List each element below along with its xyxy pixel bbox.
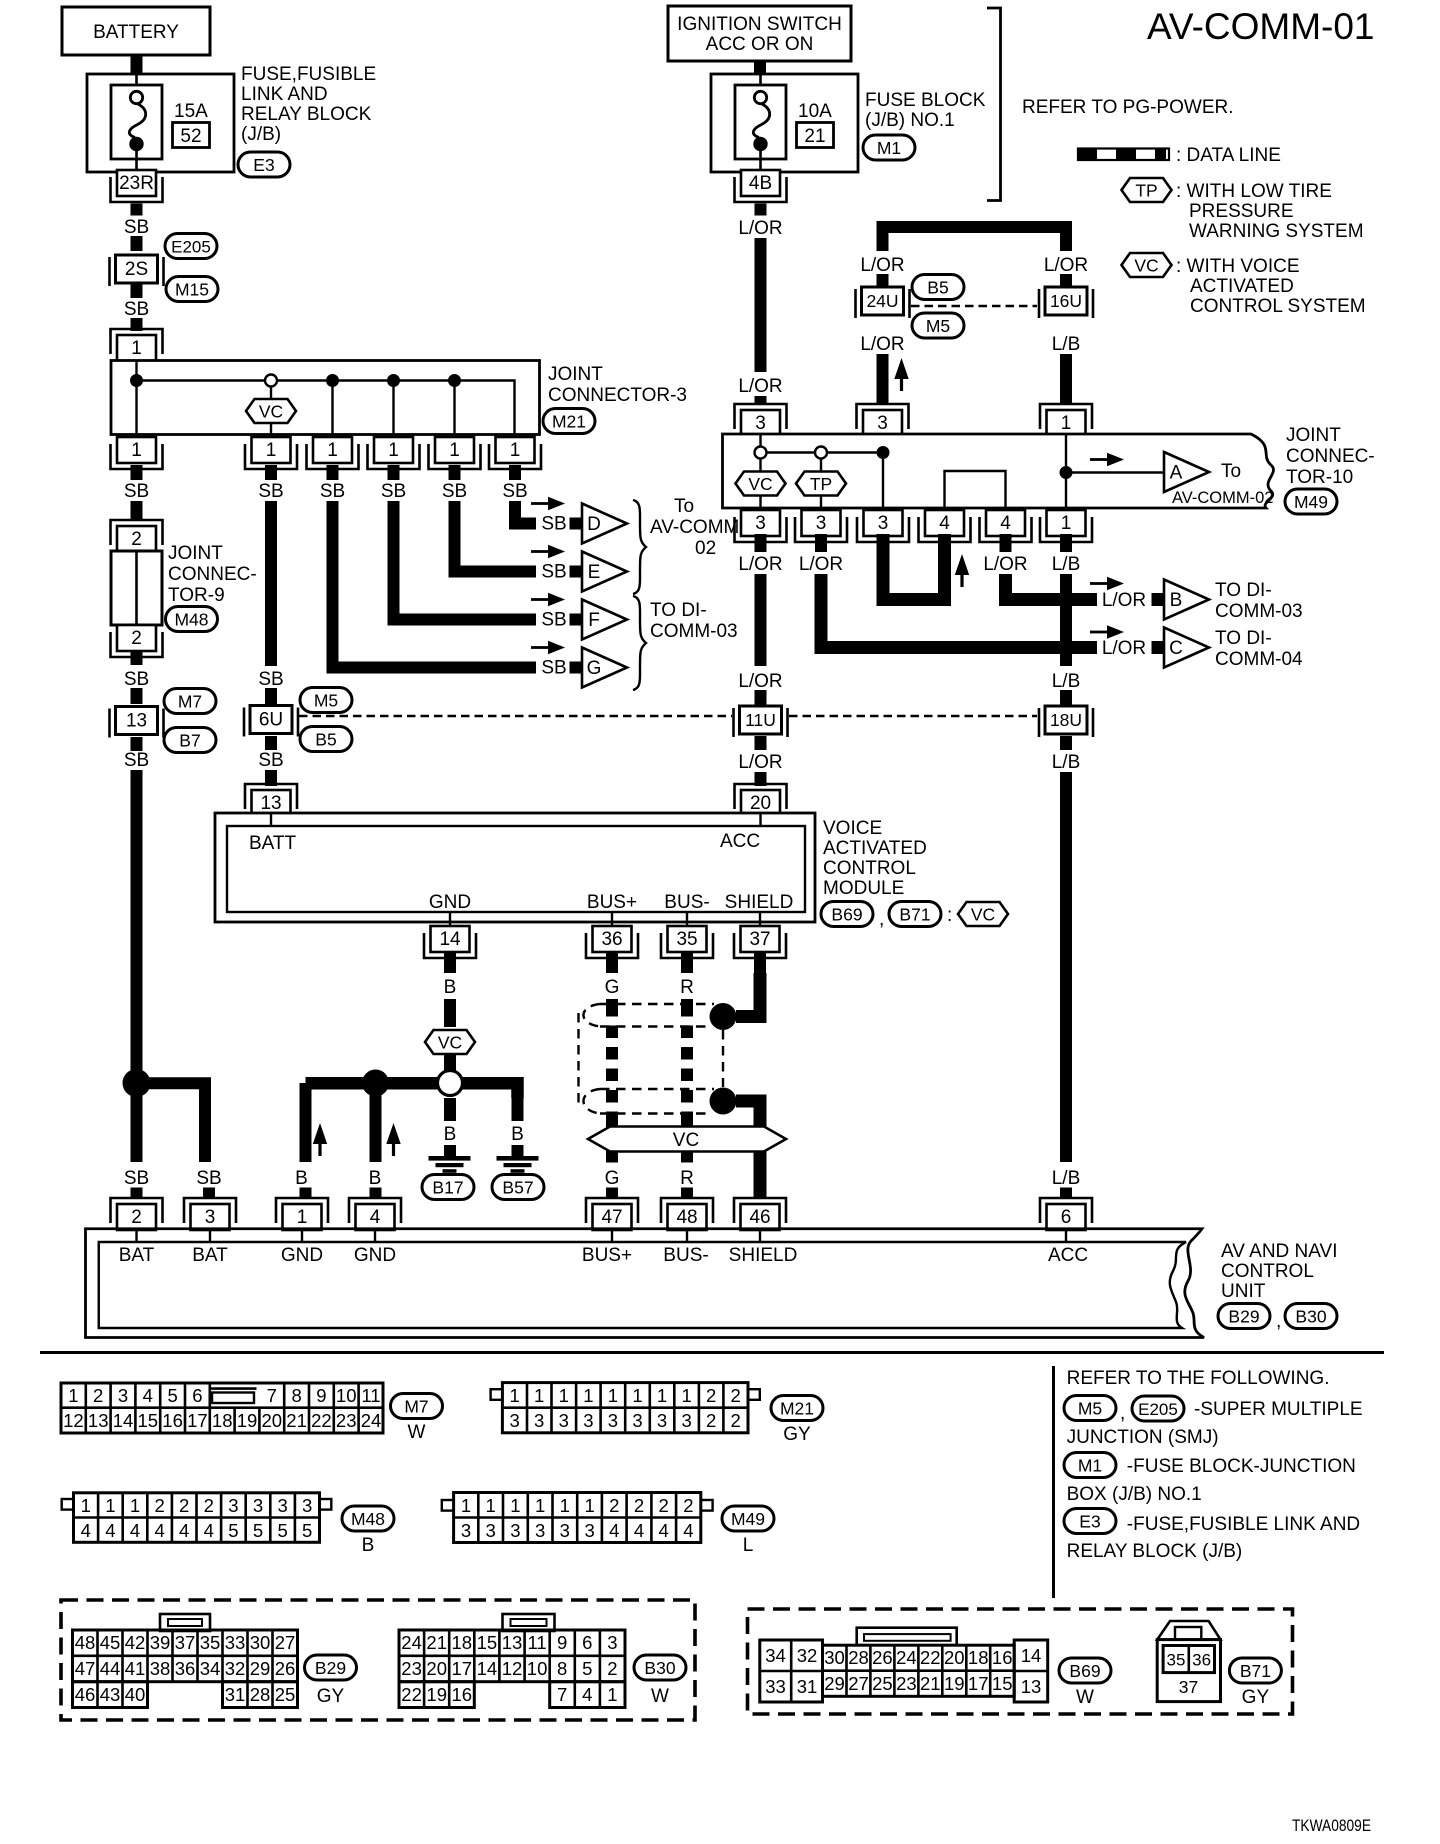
pin 3 top JC-10	[735, 404, 787, 436]
svg-text:M48: M48	[351, 1509, 385, 1529]
svg-text:18: 18	[968, 1647, 989, 1668]
fuse 15A	[111, 85, 162, 159]
svg-text:36: 36	[175, 1658, 196, 1679]
svg-text:: WITH VOICE: : WITH VOICE	[1176, 256, 1300, 277]
wire L/B down to 18U	[1060, 574, 1072, 666]
connector B7 oval	[164, 728, 216, 753]
connector M1	[863, 135, 915, 160]
svg-text:SB: SB	[258, 750, 283, 771]
pin 13 on VACM	[245, 784, 297, 816]
svg-text:RELAY BLOCK: RELAY BLOCK	[241, 104, 372, 125]
pin 1 top of joint connector-3	[111, 329, 163, 361]
svg-text:M49: M49	[1294, 492, 1328, 512]
svg-text:SB: SB	[320, 481, 345, 502]
open junction	[265, 375, 277, 387]
svg-text:2: 2	[93, 1385, 103, 1406]
svg-text:25: 25	[872, 1673, 893, 1694]
svg-text:1: 1	[266, 440, 277, 461]
svg-text:5: 5	[302, 1520, 312, 1541]
connector 24U	[856, 287, 910, 318]
svg-text:1: 1	[632, 1385, 642, 1406]
svg-text:BUS-: BUS-	[664, 892, 709, 913]
svg-text:2: 2	[706, 1410, 716, 1431]
svg-text:1: 1	[388, 440, 399, 461]
svg-text:23: 23	[401, 1658, 422, 1679]
svg-text:L/OR: L/OR	[738, 376, 782, 397]
wire pin3a down to 11U	[755, 574, 767, 666]
junction dot	[877, 446, 890, 459]
svg-text:BUS+: BUS+	[587, 892, 637, 913]
connector M1 oval	[1064, 1453, 1116, 1478]
svg-text:3: 3	[560, 1520, 570, 1541]
wire col6 to D	[515, 501, 536, 524]
svg-text:3: 3	[755, 513, 766, 534]
svg-text:40: 40	[125, 1684, 146, 1705]
branch wire down to pin1 GND	[300, 1083, 312, 1162]
svg-text:(J/B): (J/B)	[241, 124, 281, 145]
arrow to B	[1090, 577, 1124, 591]
wire down to pin 4 GND	[370, 1083, 382, 1162]
svg-text:B7: B7	[179, 731, 200, 751]
connector M48 oval	[166, 607, 218, 632]
label WITH LOW TIRE PRESSURE WARNING SYSTEM	[1176, 181, 1364, 242]
svg-text:ACTIVATED: ACTIVATED	[823, 838, 927, 859]
svg-text:3: 3	[228, 1495, 238, 1516]
svg-text:16: 16	[452, 1684, 473, 1705]
connector M48 pinout	[62, 1493, 332, 1543]
svg-text:12: 12	[63, 1410, 84, 1431]
svg-text:: DATA LINE: : DATA LINE	[1176, 145, 1281, 166]
svg-text:L/B: L/B	[1052, 671, 1081, 692]
pin 2 top of joint connector-9	[111, 520, 163, 552]
svg-text:3: 3	[755, 413, 766, 434]
svg-text:C: C	[1169, 638, 1183, 659]
svg-text:48: 48	[676, 1207, 697, 1228]
connector B17 oval	[422, 1175, 474, 1200]
arrow to E	[531, 545, 565, 559]
wire stub	[1060, 690, 1072, 705]
SMJ dashed line 11U-18U	[789, 715, 1037, 718]
svg-text:3: 3	[559, 1410, 569, 1431]
svg-text:1: 1	[1061, 513, 1072, 534]
svg-text:1: 1	[105, 1495, 115, 1516]
svg-text:17: 17	[968, 1673, 989, 1694]
svg-text:CONTROL: CONTROL	[1221, 1261, 1314, 1282]
svg-text:36: 36	[601, 929, 622, 950]
svg-text:1: 1	[681, 1385, 691, 1406]
svg-text:2: 2	[204, 1495, 214, 1516]
svg-text:21: 21	[920, 1673, 941, 1694]
svg-text:1: 1	[535, 1495, 545, 1516]
svg-text:5: 5	[582, 1658, 592, 1679]
svg-text:E205: E205	[1138, 1400, 1178, 1419]
triangle F to DI-COMM-03	[582, 600, 627, 640]
internal drop wires	[135, 381, 137, 435]
svg-text:4: 4	[582, 1684, 592, 1705]
label FUSE,FUSIBLE LINK AND RELAY BLOCK (J/B)	[241, 64, 376, 145]
svg-text:SB: SB	[124, 299, 149, 320]
svg-text:1: 1	[130, 1495, 140, 1516]
open junction VC	[755, 447, 767, 459]
svg-text:AV-COMM-: AV-COMM-	[650, 517, 746, 538]
triangle D to AV-COMM-02	[582, 504, 627, 544]
svg-text:5: 5	[277, 1520, 287, 1541]
connector E205	[165, 234, 217, 259]
svg-text:B: B	[511, 1124, 524, 1145]
fuse number 21	[797, 123, 834, 148]
svg-text:UNIT: UNIT	[1221, 1281, 1266, 1302]
triangle E to AV-COMM-02	[582, 552, 627, 592]
svg-text:4: 4	[609, 1520, 619, 1541]
svg-text:B5: B5	[315, 730, 336, 750]
JC-10 bottom pins	[735, 510, 787, 542]
svg-text:2: 2	[609, 1495, 619, 1516]
svg-text:BAT: BAT	[192, 1245, 228, 1266]
svg-text:BUS-: BUS-	[663, 1245, 708, 1266]
svg-text:CONTROL SYSTEM: CONTROL SYSTEM	[1190, 296, 1366, 317]
connector B5 oval	[300, 727, 352, 752]
svg-text:SB: SB	[502, 481, 527, 502]
bracket	[987, 8, 1001, 201]
svg-text:38: 38	[150, 1658, 171, 1679]
SMJ dashed line 24U-16U	[911, 305, 1037, 308]
svg-text:B69: B69	[831, 905, 862, 925]
VACM bottom pins	[424, 926, 476, 958]
svg-text:14: 14	[1021, 1645, 1042, 1666]
svg-text:1: 1	[583, 1385, 593, 1406]
svg-text:ACC OR ON: ACC OR ON	[706, 34, 814, 55]
svg-text:25: 25	[275, 1684, 296, 1705]
svg-text:CONTROL: CONTROL	[823, 858, 916, 879]
connector 13 (M7/B7)	[110, 707, 164, 738]
svg-text:2: 2	[634, 1495, 644, 1516]
svg-text:A: A	[1170, 463, 1183, 484]
svg-text:16U: 16U	[1050, 291, 1082, 311]
arrow to D	[531, 497, 565, 511]
connector M21 pinout	[491, 1383, 760, 1433]
svg-text:SB: SB	[442, 481, 467, 502]
internal jumper pins 4-4	[945, 471, 1006, 508]
label VOICE ACTIVATED CONTROL MODULE	[823, 818, 927, 899]
svg-text:8: 8	[291, 1385, 301, 1406]
svg-text:W: W	[408, 1422, 426, 1443]
svg-text:12: 12	[502, 1658, 523, 1679]
svg-text:10: 10	[527, 1658, 548, 1679]
svg-text:L/OR: L/OR	[860, 334, 904, 355]
svg-text:AV-COMM-02: AV-COMM-02	[1172, 489, 1273, 507]
svg-text:6: 6	[582, 1632, 592, 1653]
svg-text:20: 20	[262, 1410, 283, 1431]
svg-text:4: 4	[105, 1520, 115, 1541]
svg-text:43: 43	[100, 1684, 121, 1705]
connector B71 oval	[1229, 1658, 1281, 1683]
svg-text:23: 23	[336, 1410, 357, 1431]
svg-text:27: 27	[848, 1673, 869, 1694]
svg-text:VC: VC	[1134, 256, 1158, 276]
svg-text:JUNCTION (SMJ): JUNCTION (SMJ)	[1067, 1427, 1219, 1448]
svg-text:GND: GND	[354, 1245, 396, 1266]
svg-text:GY: GY	[783, 1424, 811, 1445]
svg-text:L/OR: L/OR	[1044, 255, 1088, 276]
wire B down from 14	[444, 999, 456, 1027]
pin 1 top JC-10	[1040, 404, 1092, 436]
connector B29 pinout	[73, 1614, 298, 1708]
svg-text:1: 1	[449, 440, 460, 461]
svg-text:JOINT: JOINT	[548, 364, 603, 385]
svg-text:,: ,	[1276, 1311, 1281, 1332]
svg-text:B: B	[444, 1124, 457, 1145]
svg-text:M49: M49	[731, 1509, 765, 1529]
svg-text:4: 4	[143, 1385, 153, 1406]
svg-text:-FUSE,FUSIBLE LINK AND: -FUSE,FUSIBLE LINK AND	[1127, 1514, 1360, 1535]
svg-text:L/OR: L/OR	[738, 554, 782, 575]
svg-text:15A: 15A	[174, 101, 208, 122]
svg-text:REFER TO THE FOLLOWING.: REFER TO THE FOLLOWING.	[1067, 1368, 1330, 1389]
svg-text:30: 30	[250, 1632, 271, 1653]
svg-text:3: 3	[632, 1410, 642, 1431]
svg-text:35: 35	[200, 1632, 221, 1653]
svg-text:3: 3	[205, 1207, 216, 1228]
svg-text:18: 18	[452, 1632, 473, 1653]
svg-text:3: 3	[486, 1520, 496, 1541]
svg-text:4: 4	[370, 1207, 381, 1228]
fuse block M1 box	[711, 74, 858, 172]
svg-text:VC: VC	[259, 402, 283, 422]
svg-text:E: E	[588, 562, 601, 583]
shield cylinder dashed	[579, 1004, 724, 1114]
wire ignition to fuse block	[754, 61, 766, 74]
wire col2 down	[265, 501, 277, 666]
svg-text:15: 15	[992, 1673, 1013, 1694]
bridge wire top	[883, 227, 1067, 251]
svg-text:4: 4	[204, 1520, 214, 1541]
svg-text:AV AND NAVI: AV AND NAVI	[1221, 1241, 1338, 1262]
stub below	[131, 651, 143, 665]
wire down to B57	[512, 1092, 524, 1121]
svg-text:L/OR: L/OR	[983, 554, 1027, 575]
wire pin3b stub	[815, 534, 827, 552]
VC option hexagon	[736, 472, 786, 496]
svg-text:3: 3	[302, 1495, 312, 1516]
vertical divider	[1052, 1366, 1055, 1598]
svg-text:10A: 10A	[798, 101, 832, 122]
svg-text:SB: SB	[541, 658, 566, 679]
brace D/E group	[633, 500, 646, 594]
fuse number 52	[173, 123, 210, 148]
svg-text:23: 23	[896, 1673, 917, 1694]
svg-text:02: 02	[695, 538, 716, 559]
svg-text:,: ,	[1120, 1403, 1125, 1424]
wire pin3b down and right to C	[821, 574, 1097, 648]
connector M5 oval	[300, 688, 352, 713]
svg-text:JOINT: JOINT	[1286, 425, 1341, 446]
svg-text:L/OR: L/OR	[860, 255, 904, 276]
svg-text:VC: VC	[971, 905, 995, 925]
svg-text:35: 35	[1167, 1651, 1186, 1670]
connector M21	[543, 409, 595, 434]
svg-text:M5: M5	[314, 691, 338, 711]
svg-text:7: 7	[557, 1684, 567, 1705]
svg-text:4: 4	[634, 1520, 644, 1541]
svg-text:VC: VC	[748, 474, 772, 494]
triangle C TO DI-COMM-04	[1164, 628, 1209, 668]
wire segment to D	[570, 518, 583, 530]
svg-text:13: 13	[126, 711, 147, 732]
svg-text:1: 1	[131, 338, 142, 359]
svg-text:2: 2	[683, 1495, 693, 1516]
stub to gnd	[444, 1145, 456, 1157]
connector 18U	[1039, 706, 1093, 737]
svg-text:26: 26	[275, 1658, 296, 1679]
svg-text:B: B	[1170, 590, 1183, 611]
svg-text:1: 1	[559, 1385, 569, 1406]
svg-text:3: 3	[461, 1520, 471, 1541]
data line legend symbol	[1078, 149, 1169, 161]
AV unit pins	[111, 1198, 163, 1230]
connector 2S	[110, 255, 164, 286]
arrow to G	[531, 641, 565, 655]
wire G data line	[606, 999, 618, 1005]
label WITH VOICE ACTIVATED CONTROL SYSTEM	[1176, 256, 1366, 317]
svg-text:42: 42	[125, 1632, 146, 1653]
svg-text:37: 37	[175, 1632, 196, 1653]
branch to pin3	[137, 1083, 206, 1162]
wire 16U down	[1060, 354, 1072, 404]
svg-text:M5: M5	[926, 316, 950, 336]
wire segment to C	[1152, 641, 1165, 654]
svg-text:B29: B29	[1228, 1307, 1259, 1327]
wire col1 down to JC-9	[131, 501, 143, 521]
wire col1 long down	[131, 770, 143, 1077]
wire stub	[265, 736, 277, 750]
svg-text:R: R	[680, 977, 694, 998]
svg-text:18U: 18U	[1050, 710, 1082, 730]
VC hexagon	[958, 902, 1008, 926]
svg-text:3: 3	[583, 1410, 593, 1431]
svg-text:3: 3	[607, 1632, 617, 1653]
svg-text:B: B	[362, 1535, 375, 1556]
svg-text:20: 20	[426, 1658, 447, 1679]
svg-text:MODULE: MODULE	[823, 878, 904, 899]
svg-text:2: 2	[731, 1410, 741, 1431]
svg-text:W: W	[651, 1686, 669, 1707]
svg-text:2: 2	[731, 1385, 741, 1406]
svg-text:28: 28	[250, 1684, 271, 1705]
svg-text:29: 29	[824, 1673, 845, 1694]
wire SB to 2S	[131, 236, 143, 251]
connector B69 oval	[1059, 1658, 1111, 1683]
label JOINT CONNECTOR-3	[548, 364, 687, 406]
svg-text:BUS+: BUS+	[582, 1245, 632, 1266]
junction dot	[326, 374, 339, 387]
svg-text:REFER TO PG-POWER.: REFER TO PG-POWER.	[1022, 97, 1234, 118]
shield bottom junction dot	[710, 1088, 737, 1115]
svg-text:B30: B30	[644, 1658, 675, 1678]
AV unit outer box	[86, 1229, 1205, 1338]
svg-text:15: 15	[477, 1632, 498, 1653]
junction dot	[448, 374, 461, 387]
VC hexagon legend	[1122, 253, 1172, 277]
wire 24U down	[877, 354, 889, 404]
wire from circle down to B17	[444, 1098, 456, 1121]
svg-text:24: 24	[401, 1632, 422, 1653]
wire into fuse	[135, 74, 138, 93]
svg-text:L/OR: L/OR	[738, 671, 782, 692]
svg-text:8: 8	[557, 1658, 567, 1679]
wire down to pin 13	[265, 770, 277, 786]
svg-text:LINK AND: LINK AND	[241, 84, 328, 105]
svg-text:(J/B) NO.1: (J/B) NO.1	[865, 110, 955, 131]
arrows up beside GND wires	[313, 1123, 327, 1156]
connector B30 oval	[1285, 1304, 1337, 1329]
svg-text::: :	[947, 905, 952, 926]
svg-text:2: 2	[154, 1495, 164, 1516]
svg-text:20: 20	[750, 793, 771, 814]
svg-text:BATT: BATT	[249, 833, 297, 854]
VC option hexagon	[246, 399, 296, 423]
label JOINT CONNEC- TOR-9	[168, 543, 257, 606]
svg-text:6U: 6U	[259, 710, 283, 731]
svg-text:3: 3	[584, 1520, 594, 1541]
arrow to F	[531, 593, 565, 607]
svg-text:-FUSE BLOCK-JUNCTION: -FUSE BLOCK-JUNCTION	[1127, 1456, 1356, 1477]
svg-text:1: 1	[131, 440, 142, 461]
svg-text:4: 4	[659, 1520, 669, 1541]
svg-text:21: 21	[804, 126, 825, 147]
svg-text:4: 4	[154, 1520, 164, 1541]
svg-text:41: 41	[125, 1658, 146, 1679]
dashed group box	[748, 1609, 1293, 1714]
svg-text:24U: 24U	[866, 291, 898, 311]
connector 11U	[734, 706, 788, 737]
svg-text:B30: B30	[1295, 1307, 1326, 1327]
svg-text:17: 17	[452, 1658, 473, 1679]
shield top junction dot	[710, 1003, 737, 1030]
svg-text:46: 46	[749, 1207, 770, 1228]
svg-text:2: 2	[607, 1658, 617, 1679]
connector B57 oval	[492, 1175, 544, 1200]
wire pin4b down right to B	[1006, 574, 1098, 600]
svg-text:G: G	[587, 658, 602, 679]
svg-text:TO DI-: TO DI-	[650, 600, 707, 621]
svg-text:ACC: ACC	[1048, 1245, 1088, 1266]
svg-text:14: 14	[477, 1658, 498, 1679]
svg-text:RELAY BLOCK (J/B): RELAY BLOCK (J/B)	[1067, 1541, 1243, 1562]
ignition switch box	[668, 6, 851, 61]
svg-text:22: 22	[920, 1647, 941, 1668]
wire stub below 18U	[1060, 736, 1072, 750]
wire below hex	[444, 1054, 456, 1071]
wire pin1 stub	[1060, 534, 1072, 552]
label AV AND NAVI CONTROL UNIT	[1221, 1241, 1338, 1302]
svg-text:SHIELD: SHIELD	[725, 892, 794, 913]
wire segment to B	[1152, 593, 1165, 606]
svg-text:B17: B17	[432, 1178, 463, 1198]
svg-text:AV-COMM-01: AV-COMM-01	[1147, 6, 1375, 47]
svg-text:5: 5	[228, 1520, 238, 1541]
pin1 internal wire with dot	[1065, 434, 1067, 508]
svg-text:4: 4	[179, 1520, 189, 1541]
svg-text:21: 21	[426, 1632, 447, 1653]
svg-text:3: 3	[118, 1385, 128, 1406]
svg-text:BATTERY: BATTERY	[93, 22, 179, 43]
svg-text:VC: VC	[438, 1033, 462, 1053]
ground bus wire	[376, 1077, 442, 1090]
svg-text:19: 19	[426, 1684, 447, 1705]
svg-text:PRESSURE: PRESSURE	[1189, 201, 1294, 222]
svg-text:M21: M21	[780, 1399, 814, 1419]
svg-text:17: 17	[187, 1410, 208, 1431]
